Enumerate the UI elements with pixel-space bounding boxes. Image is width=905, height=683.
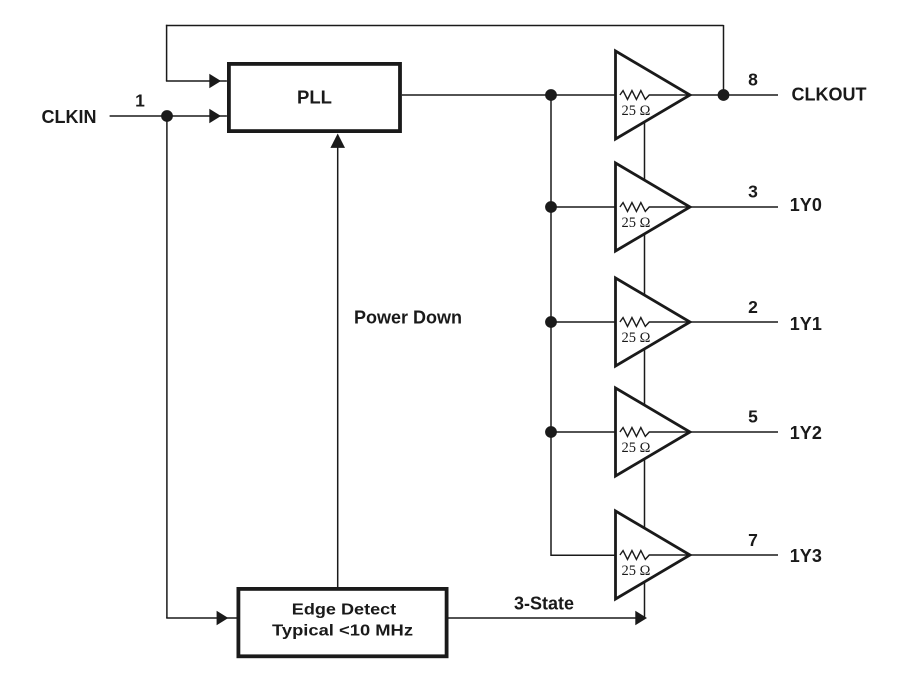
svg-text:3: 3 xyxy=(748,182,758,202)
resistor 25 ohm in buffer 3 xyxy=(620,318,690,327)
PLL block U1 xyxy=(229,64,400,131)
svg-text:Edge Detect: Edge Detect xyxy=(292,602,397,619)
svg-text:CLKOUT: CLKOUT xyxy=(792,85,867,105)
wire feedback right vertical (to CLKOUT node) xyxy=(723,25,725,95)
svg-text:1Y1: 1Y1 xyxy=(790,314,822,334)
arrowhead Edge Detect input xyxy=(217,611,229,626)
svg-text:1Y3: 1Y3 xyxy=(790,546,822,566)
arrowhead 3-State xyxy=(635,611,647,626)
resistor 25 ohm in buffer 2 xyxy=(620,203,690,212)
buffer 5 (1Y3 driver) xyxy=(616,511,691,599)
arrowhead Power Down into PLL bottom xyxy=(330,134,345,148)
wire buffer 2 input xyxy=(551,206,621,208)
wire buffer 2 output xyxy=(690,206,778,208)
buffer 1 (CLKOUT driver) xyxy=(616,51,691,139)
arrowhead PLL top input xyxy=(209,74,221,89)
svg-text:25 Ω: 25 Ω xyxy=(622,563,651,579)
wire buffer 4 input xyxy=(551,431,621,433)
svg-text:CLKIN: CLKIN xyxy=(42,107,97,127)
wire buffer 1 output (CLKOUT) xyxy=(690,94,778,96)
svg-text:8: 8 xyxy=(748,70,758,90)
Edge Detect block U2 xyxy=(238,589,446,656)
node bus junction row 3 xyxy=(545,316,557,328)
svg-text:2: 2 xyxy=(748,297,758,317)
wire Power Down (Edge Detect to PLL) xyxy=(337,140,339,588)
svg-text:25 Ω: 25 Ω xyxy=(622,330,651,346)
node CLKIN junction xyxy=(161,110,173,122)
wire feedback into PLL top input xyxy=(166,80,227,82)
arrowhead PLL lower input xyxy=(209,109,221,124)
wire output bus vertical xyxy=(551,95,621,555)
buffer 3 (1Y1 driver) xyxy=(616,278,691,366)
svg-text:1Y2: 1Y2 xyxy=(790,423,822,443)
resistor 25 ohm in buffer 1 xyxy=(620,91,690,100)
node bus junction row 4 xyxy=(545,426,557,438)
svg-text:Typical <10 MHz: Typical <10 MHz xyxy=(272,623,413,640)
wire CLKIN vertical down xyxy=(166,116,168,618)
svg-text:5: 5 xyxy=(748,407,758,427)
svg-text:25 Ω: 25 Ω xyxy=(622,440,651,456)
buffer 2 (1Y0 driver) xyxy=(616,163,691,251)
wire PLL output to bus and buffer 1 input xyxy=(402,94,621,96)
node CLKOUT junction xyxy=(718,89,730,101)
svg-text:25 Ω: 25 Ω xyxy=(622,103,651,119)
svg-text:7: 7 xyxy=(748,530,758,550)
resistor 25 ohm in buffer 4 xyxy=(620,428,690,437)
wire CLKIN lead xyxy=(110,115,227,117)
node bus junction row 2 xyxy=(545,201,557,213)
resistor 25 ohm in buffer 5 xyxy=(620,551,690,560)
wire buffer 4 output xyxy=(690,431,778,433)
wire feedback top horizontal (CLKOUT to PLL) xyxy=(166,25,724,27)
svg-text:1Y0: 1Y0 xyxy=(790,195,822,215)
svg-text:Power Down: Power Down xyxy=(354,308,462,328)
wire buffer 3 input xyxy=(551,321,621,323)
svg-text:3-State: 3-State xyxy=(514,594,574,614)
wire 3-State from Edge Detect xyxy=(447,617,638,619)
wire buffer 5 output xyxy=(690,554,778,556)
node bus junction row 1 xyxy=(545,89,557,101)
svg-text:1: 1 xyxy=(135,91,145,111)
wire buffer 3 output xyxy=(690,321,778,323)
wire feedback left vertical xyxy=(166,25,168,81)
wire into Edge Detect xyxy=(166,617,236,619)
svg-text:25 Ω: 25 Ω xyxy=(622,215,651,231)
wire 3-State vertical through buffers xyxy=(644,100,646,618)
buffer 4 (1Y2 driver) xyxy=(616,388,691,476)
svg-text:PLL: PLL xyxy=(297,87,332,108)
